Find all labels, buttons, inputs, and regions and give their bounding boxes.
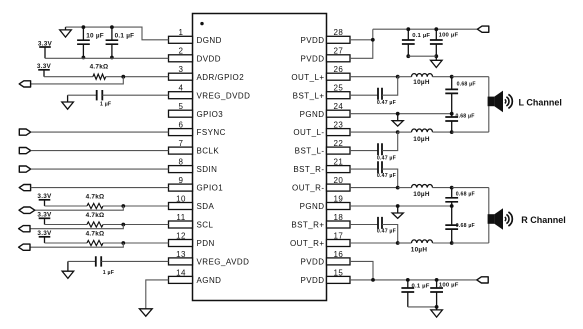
- wire filter node R+ to speaker: [452, 242, 489, 244]
- inductor 10uH R-: [412, 184, 433, 197]
- svg-text:2: 2: [179, 47, 184, 56]
- svg-text:3: 3: [179, 65, 184, 74]
- svg-text:26: 26: [334, 65, 344, 74]
- svg-text:GPIO1: GPIO1: [197, 184, 224, 193]
- connector FSYNC input: [19, 129, 30, 135]
- svg-text:6: 6: [179, 121, 184, 130]
- svg-text:PDN: PDN: [197, 239, 215, 248]
- svg-text:4: 4: [179, 84, 184, 93]
- junction 10uF bottom: [82, 56, 86, 60]
- svg-text:19: 19: [334, 194, 344, 203]
- svg-text:18: 18: [334, 213, 344, 222]
- wire filter node R- to speaker: [452, 187, 489, 189]
- pin 9 GPIO1 (box, number, name): [169, 176, 224, 193]
- pin 6 FSYNC (box, number, name): [169, 121, 226, 138]
- resistor 4.7k SDA pull-up: [86, 193, 105, 208]
- svg-text:SDIN: SDIN: [197, 165, 218, 174]
- junction filter node R+: [450, 241, 454, 245]
- wire node to inductor R-: [398, 187, 412, 189]
- svg-text:14: 14: [176, 268, 186, 277]
- connector GPIO1: [19, 185, 30, 191]
- junction node SCL: [121, 223, 125, 227]
- junction PGND L cap node: [450, 112, 454, 116]
- junction 0.1uF bottom top-rail: [406, 278, 410, 282]
- capacitor 0.47 uF BST_L-: [377, 143, 396, 161]
- wire inductor L- to filter node: [433, 131, 452, 133]
- svg-text:28: 28: [334, 28, 344, 37]
- svg-text:17: 17: [334, 231, 344, 240]
- wire 3.3V to resistor SCL: [45, 224, 88, 226]
- svg-text:10µH: 10µH: [413, 136, 430, 143]
- capacitor 0.68 uF L+ to PGND: [445, 77, 475, 114]
- ground for VREG_AVDD cap: [62, 261, 74, 278]
- pin 27 PVDD (box, number, name): [300, 47, 350, 64]
- svg-text:22: 22: [334, 139, 344, 148]
- resistor 4.7k SCL pull-up: [86, 212, 105, 227]
- wire BST_R+ cap down to switch node: [382, 225, 398, 244]
- connector SDIN input: [19, 166, 30, 172]
- wire pin14 AGND down to ground: [146, 280, 169, 309]
- junction 0.1uF top: [110, 25, 114, 29]
- junction filter node R-: [450, 186, 454, 190]
- junction 100uF top rail: [434, 27, 438, 31]
- wire R speaker vertical: [488, 188, 490, 243]
- wire 3.3V to resistor SDA: [45, 205, 88, 207]
- svg-text:0.47 µF: 0.47 µF: [377, 155, 396, 161]
- svg-text:16: 16: [334, 250, 344, 259]
- 3.3V supply for SCL pull-up: [37, 212, 52, 225]
- wire pin27 PVDD up to node: [350, 29, 373, 58]
- wire bottom caps ground rail: [408, 306, 437, 308]
- capacitor 0.68 uF PGND to L-: [445, 114, 474, 133]
- wire pin1 DGND to top ground rail: [66, 27, 169, 40]
- svg-text:4.7kΩ: 4.7kΩ: [90, 64, 109, 71]
- svg-text:OUT_L+: OUT_L+: [291, 73, 324, 82]
- wire pin15 PVDD rail: [350, 279, 477, 281]
- pin 22 BST_L- (box, number, name): [295, 139, 350, 156]
- svg-text:PVDD: PVDD: [300, 276, 324, 285]
- svg-text:BST_R+: BST_R+: [291, 221, 324, 230]
- wire PVDD rail top: [373, 28, 478, 30]
- ground at DGND rail left end: [60, 27, 72, 37]
- svg-text:PVDD: PVDD: [300, 54, 324, 63]
- svg-text:0.68 µF: 0.68 µF: [456, 223, 475, 229]
- 3.3V supply for SDA pull-up: [37, 193, 52, 206]
- pin 2 DVDD (box, number, name): [169, 47, 221, 64]
- pin 13 VREG_AVDD (box, number, name): [169, 250, 250, 267]
- wire resistor to pin 11 SCL: [103, 224, 169, 226]
- capacitor 1 uF VREG_DVDD: [97, 90, 112, 108]
- speaker R Channel: [488, 208, 566, 230]
- wire pin21 BST_R- to cap: [350, 168, 378, 170]
- capacitor 0.68 uF PGND to R+: [445, 206, 475, 243]
- svg-text:10: 10: [176, 194, 186, 203]
- wire pin24 PGND rail L: [350, 113, 452, 115]
- svg-text:10µH: 10µH: [411, 247, 428, 254]
- wire pin20 OUT_R- to switch node: [350, 187, 398, 189]
- junction switch node L-: [396, 130, 400, 134]
- wire PVDD cap ground rail top: [408, 55, 436, 57]
- connector BCLK input: [19, 148, 30, 154]
- ground PGND L: [392, 114, 403, 126]
- wire filter node L- to speaker: [452, 131, 489, 133]
- wire pin28 PVDD to node: [350, 39, 373, 41]
- svg-text:VREG_AVDD: VREG_AVDD: [197, 258, 250, 267]
- svg-text:ADR/GPIO2: ADR/GPIO2: [197, 73, 245, 82]
- svg-text:FSYNC: FSYNC: [197, 128, 226, 137]
- svg-text:OUT_R+: OUT_R+: [290, 239, 325, 248]
- wire 3.3V to pin2 DVDD: [45, 57, 169, 59]
- junction PGND R cap node: [450, 204, 454, 208]
- svg-text:1 µF: 1 µF: [100, 102, 111, 108]
- pin 25 BST_L+ (box, number, name): [293, 84, 350, 101]
- ground PGND R: [392, 206, 403, 218]
- pin 4 VREG_DVDD (box, number, name): [169, 84, 251, 101]
- svg-text:0.68 µF: 0.68 µF: [457, 82, 476, 88]
- svg-text:PVDD: PVDD: [300, 36, 324, 45]
- wire ground to cap 1uF: [68, 94, 97, 96]
- svg-text:0.1 µF: 0.1 µF: [412, 283, 430, 289]
- pin 21 BST_R- (box, number, name): [293, 158, 350, 175]
- wire pin19 PGND rail R: [350, 205, 452, 207]
- junction bottom ground node: [435, 305, 439, 309]
- junction node PDN: [121, 241, 125, 245]
- svg-text:8: 8: [179, 158, 184, 167]
- wire pin23 OUT_L- to switch node: [350, 131, 398, 133]
- svg-text:1 µF: 1 µF: [103, 270, 114, 276]
- svg-text:20: 20: [334, 176, 344, 185]
- wire ground to cap 1uF AVDD: [68, 260, 96, 262]
- junction node ADR: [121, 75, 125, 79]
- pin 15 PVDD (box, number, name): [300, 268, 350, 285]
- svg-text:10 µF: 10 µF: [86, 32, 104, 39]
- pin 26 OUT_L+ (box, number, name): [291, 65, 350, 82]
- svg-text:0.1 µF: 0.1 µF: [412, 33, 430, 39]
- svg-text:25: 25: [334, 84, 344, 93]
- svg-text:0.68 µF: 0.68 µF: [456, 191, 475, 197]
- pin 3 ADR/GPIO2 (box, number, name): [169, 65, 245, 82]
- wire FSYNC connector to pin 6: [31, 131, 169, 133]
- wire pin18 BST_R+ to cap: [350, 224, 378, 226]
- wire BCLK connector to pin 7: [31, 150, 169, 152]
- capacitor 0.47 uF BST_L+: [377, 88, 396, 106]
- capacitor 0.1 uF PVDD bottom: [401, 280, 429, 307]
- pin 1 DGND (box, number, name): [169, 28, 222, 45]
- resistor 4.7k ADR pull-up: [90, 64, 109, 80]
- wire resistor to pin 12 PDN: [103, 242, 169, 244]
- wire node to inductor R+: [398, 242, 412, 244]
- svg-text:VREG_DVDD: VREG_DVDD: [197, 91, 251, 100]
- svg-text:SCL: SCL: [197, 221, 214, 230]
- svg-text:BST_L-: BST_L-: [295, 147, 325, 156]
- connector ADR off-page: [19, 81, 30, 87]
- capacitor 10 uF DVDD decoupling: [77, 27, 104, 57]
- svg-text:0.68 µF: 0.68 µF: [456, 114, 475, 120]
- svg-text:5: 5: [179, 102, 184, 111]
- junction filter node L+: [450, 75, 454, 79]
- connector PDN: [19, 244, 30, 250]
- wire inductor L+ to filter node: [433, 76, 452, 78]
- junction filter node L-: [450, 130, 454, 134]
- pin 5 GPIO3 (box, number, name): [169, 102, 224, 119]
- wire BST_L+ cap up to switch node: [382, 77, 398, 96]
- svg-text:4.7kΩ: 4.7kΩ: [86, 193, 105, 200]
- ground AGND: [139, 309, 152, 316]
- capacitor 100 uF PVDD bottom: [430, 280, 459, 307]
- wire pin25 BST_L+ to cap: [350, 94, 378, 96]
- junction 10uF top: [82, 25, 86, 29]
- wire resistor to pin3 ADR/GPIO2: [106, 76, 169, 78]
- wire SCL node down to connector: [30, 225, 123, 229]
- junction switch node R+: [396, 241, 400, 245]
- svg-text:0.1 µF: 0.1 µF: [115, 32, 135, 39]
- wire GPIO1 connector to pin 9: [31, 187, 169, 189]
- svg-text:0.47 µF: 0.47 µF: [377, 229, 396, 235]
- junction 0.1uF bottom: [110, 56, 114, 60]
- capacitor 0.47 uF BST_R-: [377, 161, 396, 179]
- junction 100uF bottom rail: [434, 54, 438, 58]
- inductor 10uH L-: [412, 129, 433, 143]
- svg-text:0.47 µF: 0.47 µF: [377, 173, 396, 179]
- pin 18 BST_R+ (box, number, name): [291, 213, 350, 230]
- pin 17 OUT_R+ (box, number, name): [290, 231, 350, 248]
- IC U1 pin-1 indicator dot: [200, 22, 203, 25]
- svg-text:OUT_R-: OUT_R-: [292, 184, 324, 193]
- pin 11 SCL (box, number, name): [169, 213, 214, 230]
- ground PVDD caps top: [431, 56, 443, 67]
- ground PVDD caps bottom: [431, 307, 443, 317]
- wire pin22 BST_L- to cap: [350, 150, 378, 152]
- wire cap to pin13 VREG_AVDD: [101, 260, 168, 262]
- junction 100uF bottom top-rail: [435, 278, 439, 282]
- pin 23 OUT_L- (box, number, name): [293, 121, 350, 138]
- junction switch node R-: [396, 186, 400, 190]
- ground for VREG_DVDD cap: [62, 95, 74, 109]
- wire inductor R- to filter node: [433, 187, 452, 189]
- connector SDA bidirectional: [19, 207, 35, 213]
- wire SDA node down to connector: [35, 206, 123, 210]
- wire 3.3V to resistor R-ADR: [44, 76, 93, 78]
- capacitor 1 uF VREG_AVDD: [96, 256, 114, 276]
- capacitor 0.47 uF BST_R+: [377, 217, 396, 235]
- svg-text:DGND: DGND: [197, 36, 222, 45]
- 3.3V supply for ADR pull-up: [37, 63, 52, 77]
- pin 16 PVDD (box, number, name): [300, 250, 350, 267]
- svg-text:L Channel: L Channel: [519, 98, 562, 108]
- svg-text:21: 21: [334, 158, 344, 167]
- svg-text:SDA: SDA: [197, 202, 215, 211]
- wire PDN node down to connector: [30, 243, 123, 247]
- pin 20 OUT_R- (box, number, name): [292, 176, 350, 193]
- svg-text:100 µF: 100 µF: [439, 283, 459, 289]
- svg-text:10µH: 10µH: [413, 79, 430, 86]
- svg-text:4.7kΩ: 4.7kΩ: [86, 212, 105, 219]
- svg-text:GPIO3: GPIO3: [197, 110, 224, 119]
- wire inductor R+ to filter node: [433, 242, 452, 244]
- svg-text:15: 15: [334, 268, 344, 277]
- junction PGND L: [396, 112, 400, 116]
- svg-text:10µH: 10µH: [413, 191, 430, 198]
- svg-text:23: 23: [334, 121, 344, 130]
- junction PVDD bottom pins: [371, 278, 375, 282]
- svg-text:BST_R-: BST_R-: [293, 165, 324, 174]
- speaker L Channel: [488, 91, 562, 113]
- wire pin16 PVDD to node: [350, 261, 373, 280]
- wire BST_R- cap down to switch node: [382, 169, 398, 188]
- inductor 10uH R+: [411, 240, 433, 254]
- connector SCL: [19, 226, 30, 232]
- wire SDIN connector to pin 8: [31, 168, 169, 170]
- svg-text:24: 24: [334, 102, 344, 111]
- pin 24 PGND (box, number, name): [300, 102, 350, 119]
- wire pin26 OUT_L+ to switch node: [350, 76, 398, 78]
- resistor 4.7k PDN pull-up: [86, 230, 105, 245]
- capacitor 0.1 uF PVDD top: [402, 29, 431, 56]
- op-amp-class-D amplifier IC U1 body: [193, 14, 327, 301]
- svg-text:R Channel: R Channel: [521, 215, 566, 225]
- svg-text:BST_L+: BST_L+: [293, 91, 325, 100]
- junction PGND R: [396, 204, 400, 208]
- capacitor 100 uF PVDD top: [430, 29, 459, 56]
- svg-text:PVDD: PVDD: [300, 258, 324, 267]
- svg-text:27: 27: [334, 47, 344, 56]
- pin 19 PGND (box, number, name): [300, 194, 350, 211]
- wire filter node L+ to speaker: [452, 76, 489, 78]
- wire L speaker vertical: [488, 77, 490, 132]
- svg-text:4.7kΩ: 4.7kΩ: [86, 230, 105, 237]
- connector PVDD supply top: [477, 26, 488, 32]
- wire ADR node down to connector: [31, 77, 124, 84]
- 3.3V supply to DVDD: [38, 40, 53, 58]
- pin 8 SDIN (box, number, name): [169, 158, 218, 175]
- wire cap 1uF to pin4 VREG_DVDD: [102, 94, 168, 96]
- svg-text:DVDD: DVDD: [197, 54, 221, 63]
- inductor 10uH L+: [412, 74, 433, 87]
- 3.3V supply for PDN pull-up: [37, 230, 52, 243]
- junction 0.1uF bottom rail: [406, 54, 410, 58]
- svg-text:12: 12: [176, 231, 186, 240]
- svg-text:11: 11: [176, 213, 185, 222]
- svg-text:13: 13: [176, 250, 186, 259]
- capacitor 0.1 uF DVDD decoupling: [106, 27, 135, 57]
- wire resistor to pin 10 SDA: [103, 205, 169, 207]
- svg-text:OUT_L-: OUT_L-: [293, 128, 324, 137]
- svg-text:0.47 µF: 0.47 µF: [377, 100, 396, 106]
- connector PVDD supply bottom: [477, 277, 488, 283]
- junction PVDD pins: [371, 38, 375, 42]
- pin 10 SDA (box, number, name): [169, 194, 215, 211]
- wire 3.3V to resistor PDN: [45, 242, 88, 244]
- svg-text:1: 1: [179, 28, 184, 37]
- svg-text:100 µF: 100 µF: [439, 33, 459, 39]
- svg-text:9: 9: [179, 176, 184, 185]
- wire node to inductor L-: [398, 131, 412, 133]
- pin 7 BCLK (box, number, name): [169, 139, 220, 156]
- pin 14 AGND (box, number, name): [169, 268, 222, 285]
- svg-text:7: 7: [179, 139, 184, 148]
- capacitor 0.68 uF R- to PGND: [445, 188, 475, 206]
- junction 0.1uF top rail: [406, 27, 410, 31]
- junction switch node L+: [396, 75, 400, 79]
- pin 12 PDN (box, number, name): [169, 231, 215, 248]
- junction node SDA: [121, 204, 125, 208]
- svg-text:BCLK: BCLK: [197, 147, 220, 156]
- svg-text:AGND: AGND: [197, 276, 222, 285]
- svg-text:PGND: PGND: [300, 202, 325, 211]
- wire node to inductor L+: [398, 76, 412, 78]
- wire pin17 OUT_R+ to switch node: [350, 242, 398, 244]
- wire BST_L- cap up to switch node: [382, 132, 398, 151]
- pin 28 PVDD (box, number, name): [300, 28, 350, 45]
- svg-text:PGND: PGND: [300, 110, 325, 119]
